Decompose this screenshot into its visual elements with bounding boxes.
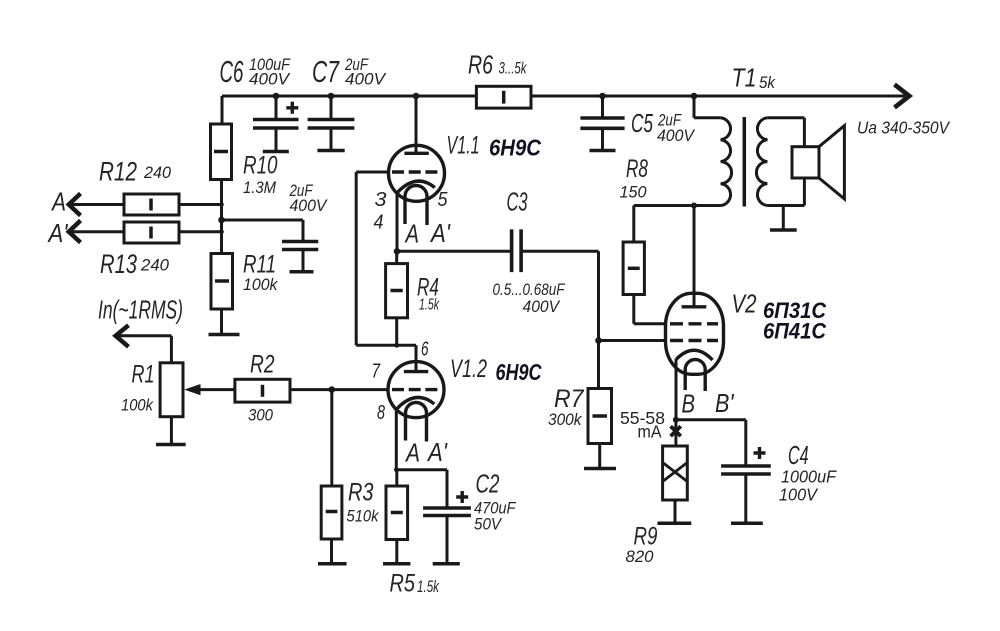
svg-text:R1: R1	[132, 361, 155, 389]
svg-text:510k: 510k	[347, 507, 380, 526]
svg-text:R3: R3	[348, 479, 374, 507]
svg-text:3: 3	[375, 189, 387, 211]
svg-text:400V: 400V	[249, 70, 291, 89]
svg-text:150: 150	[620, 183, 648, 202]
svg-text:3...5k: 3...5k	[499, 59, 528, 78]
svg-text:400V: 400V	[290, 196, 329, 215]
svg-text:R2: R2	[250, 351, 275, 379]
svg-text:50V: 50V	[474, 515, 502, 534]
svg-text:4: 4	[374, 212, 384, 234]
svg-text:240: 240	[143, 163, 171, 182]
svg-text:R12: R12	[99, 157, 137, 187]
svg-text:Ua 340-350V: Ua 340-350V	[857, 118, 951, 138]
svg-text:In(~1RMS): In(~1RMS)	[98, 295, 183, 325]
svg-text:R13: R13	[100, 249, 137, 279]
svg-text:B: B	[682, 389, 696, 419]
svg-text:mA: mA	[638, 422, 662, 442]
svg-text:400V: 400V	[345, 70, 387, 89]
svg-text:A': A'	[429, 218, 451, 248]
svg-text:R5: R5	[390, 570, 416, 598]
svg-text:T1: T1	[732, 63, 757, 93]
svg-text:A': A'	[47, 218, 69, 248]
svg-text:R7: R7	[554, 385, 585, 413]
svg-text:V2: V2	[732, 289, 757, 319]
svg-text:R10: R10	[243, 152, 278, 180]
svg-text:C6: C6	[220, 54, 244, 89]
svg-text:6Н9С: 6Н9С	[496, 359, 542, 385]
svg-text:C5: C5	[631, 108, 653, 138]
svg-text:A: A	[404, 438, 420, 468]
svg-text:1.3M: 1.3M	[243, 178, 277, 197]
svg-text:1.5k: 1.5k	[419, 297, 440, 314]
svg-text:5: 5	[438, 189, 449, 211]
svg-text:820: 820	[626, 547, 655, 566]
svg-text:100k: 100k	[243, 275, 279, 294]
svg-text:C7: C7	[312, 54, 340, 89]
svg-text:C2: C2	[476, 469, 500, 499]
svg-text:100k: 100k	[121, 396, 154, 415]
svg-text:V1.2: V1.2	[450, 355, 487, 383]
svg-text:A': A'	[426, 437, 448, 467]
svg-text:C3: C3	[507, 187, 528, 217]
svg-text:7: 7	[372, 361, 381, 383]
svg-text:400V: 400V	[523, 298, 561, 316]
svg-text:6П41С: 6П41С	[763, 319, 827, 344]
svg-text:A: A	[404, 219, 419, 249]
svg-text:R6: R6	[468, 50, 493, 80]
svg-text:1.5k: 1.5k	[417, 577, 440, 596]
svg-text:8: 8	[377, 402, 385, 424]
svg-text:A: A	[50, 187, 66, 217]
svg-text:400V: 400V	[657, 126, 696, 145]
svg-text:1000uF: 1000uF	[781, 467, 837, 487]
svg-text:V1.1: V1.1	[447, 132, 480, 160]
svg-text:B': B'	[715, 388, 734, 418]
svg-text:5k: 5k	[759, 73, 776, 92]
svg-text:300k: 300k	[548, 410, 583, 429]
svg-text:100V: 100V	[779, 485, 819, 505]
svg-text:6Н9С: 6Н9С	[489, 135, 541, 161]
svg-text:240: 240	[140, 256, 170, 275]
svg-text:C4: C4	[788, 440, 809, 470]
svg-text:300: 300	[248, 406, 273, 425]
svg-text:R8: R8	[626, 155, 648, 183]
svg-text:0.5...0.68uF: 0.5...0.68uF	[493, 281, 566, 299]
svg-text:6: 6	[421, 339, 429, 361]
